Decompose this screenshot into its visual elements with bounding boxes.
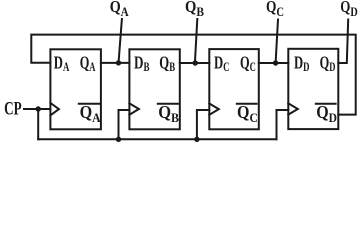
wire QB to DC (180, 62, 210, 64)
junction node QC (273, 60, 278, 65)
svg-text:QD: QD (340, 0, 358, 19)
wire clock riser to U2 (119, 110, 130, 139)
overbar QA-bar (78, 103, 102, 105)
svg-text:DB: DB (134, 53, 150, 74)
wire feedback QD-bar to DA (31, 35, 355, 115)
svg-text:QA: QA (80, 53, 96, 74)
svg-text:QC: QC (237, 102, 258, 125)
svg-text:DD: DD (294, 53, 310, 74)
wire clock riser to U3 (197, 110, 209, 139)
wire CP input (24, 108, 50, 110)
svg-text:CP: CP (4, 99, 22, 119)
overbar QB-bar (157, 103, 179, 105)
flip-flop U4 clock triangle (288, 103, 298, 114)
wire CP drop to clock bus (37, 109, 39, 139)
wire clock bus (38, 138, 276, 140)
wire QC to DD (259, 62, 289, 64)
svg-text:QB: QB (185, 0, 204, 19)
junction node CP (36, 106, 41, 111)
wire QD to top label (338, 20, 348, 64)
overbar QC-bar (236, 103, 258, 105)
svg-text:QA: QA (80, 102, 102, 125)
wire QA riser to top label (119, 19, 122, 63)
svg-text:DA: DA (54, 53, 70, 74)
flip-flop U4 box (288, 49, 338, 129)
svg-text:QC: QC (240, 53, 256, 74)
flip-flop U2 box (129, 49, 179, 129)
junction node clock bus U2 (116, 137, 121, 142)
svg-text:DC: DC (214, 53, 230, 74)
svg-text:QB: QB (159, 53, 175, 74)
flip-flop U3 clock triangle (209, 104, 219, 115)
wire clock riser to U4 (277, 110, 289, 139)
wire QA to DB (101, 62, 129, 64)
flip-flop U1 clock triangle (50, 103, 59, 115)
svg-text:QC: QC (266, 0, 284, 19)
junction node clock bus U3 (194, 137, 199, 142)
flip-flop U3 box (209, 49, 258, 129)
wire QC riser to top label (276, 20, 278, 64)
wire QB riser to top label (195, 19, 197, 63)
svg-text:QB: QB (158, 102, 179, 125)
svg-text:QD: QD (316, 102, 337, 125)
svg-text:QD: QD (320, 53, 336, 74)
flip-flop U1 box (50, 49, 101, 129)
junction node QA (116, 60, 121, 65)
svg-text:QA: QA (110, 0, 130, 19)
junction node QB (193, 60, 198, 65)
overbar QD-bar (315, 103, 337, 105)
flip-flop U2 clock triangle (129, 103, 139, 114)
